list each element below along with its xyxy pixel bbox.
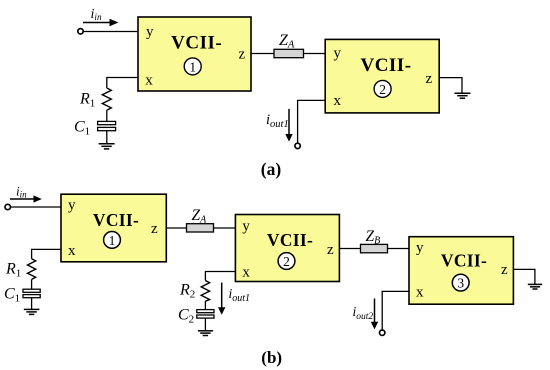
wire: x pin of U1b to R1 (b)	[32, 249, 61, 258]
svg-text:C1: C1	[4, 286, 20, 305]
svg-text:x: x	[334, 93, 342, 109]
node: output terminal i_out1 (a)	[295, 143, 300, 148]
capacitor C1 (a)	[98, 121, 116, 130]
wire: R2 to C2 (b)	[204, 301, 206, 310]
svg-text:iout2: iout2	[353, 304, 374, 322]
wire: C1 to ground (a)	[106, 131, 108, 144]
current arrow i_in (a)	[83, 19, 119, 27]
circled number 1 (U1b)	[104, 232, 121, 249]
svg-text:z: z	[327, 242, 334, 258]
svg-text:x: x	[416, 285, 424, 301]
circled number 3 (U3)	[452, 274, 469, 291]
svg-text:z: z	[151, 221, 158, 237]
impedance ZA (b)	[187, 224, 214, 232]
svg-text:1: 1	[189, 59, 196, 74]
resistor R2 (b)	[201, 281, 209, 302]
svg-text:2: 2	[379, 82, 386, 97]
svg-text:y: y	[242, 219, 250, 235]
svg-text:iin: iin	[16, 183, 27, 199]
svg-text:iin: iin	[91, 7, 102, 22]
circled number 2 (U2b)	[278, 253, 295, 270]
current arrow i_out2 (b)	[371, 299, 378, 330]
wire: z pin of U1a to ZA (a)	[251, 53, 274, 55]
svg-text:R2: R2	[179, 282, 195, 301]
current arrow i_out1 (a)	[285, 109, 292, 142]
resistor R1 (b)	[28, 259, 36, 280]
ground symbol at z of U2a (a)	[454, 93, 470, 98]
resistor R1 (a)	[102, 88, 111, 110]
ground symbol at z of U3 (b)	[528, 284, 542, 289]
svg-text:3: 3	[457, 276, 464, 291]
wire: ZB to y pin of U3 (b)	[388, 248, 410, 250]
impedance ZA (a)	[274, 49, 304, 57]
wire: input to y pin of VCII-1 (a)	[83, 31, 138, 33]
svg-text:ZA: ZA	[279, 32, 295, 51]
svg-text:x: x	[242, 265, 250, 281]
wire: z pin of U1b to ZA (b)	[166, 227, 186, 229]
impedance ZB (b)	[361, 244, 388, 252]
node: input terminal (a)	[78, 29, 83, 34]
VCII block 1 (b)	[61, 194, 166, 262]
svg-text:C1: C1	[74, 119, 90, 138]
wire: z pin of U3 to ground (b)	[513, 269, 535, 284]
wire: z pin of U2a to ground (a)	[439, 78, 462, 94]
svg-text:VCII-: VCII-	[360, 55, 411, 76]
svg-text:z: z	[239, 46, 246, 62]
svg-text:y: y	[416, 240, 424, 256]
svg-text:(a): (a)	[261, 159, 282, 179]
wire: x pin of U1a to R1 (a)	[107, 78, 138, 89]
svg-text:iout1: iout1	[266, 112, 289, 130]
ground symbol below C1 (b)	[24, 309, 40, 314]
svg-text:R1: R1	[79, 90, 95, 109]
wire: R1 to C1 (b)	[31, 279, 33, 289]
svg-text:1: 1	[109, 233, 116, 248]
svg-text:2: 2	[283, 254, 290, 269]
svg-text:VCII-: VCII-	[267, 230, 313, 250]
wire: C1 to ground (b)	[31, 298, 33, 310]
current arrow i_out1 (b)	[218, 283, 225, 315]
VCII block 2 (a)	[325, 39, 439, 113]
circled number 2 (U2a)	[374, 80, 391, 97]
svg-text:z: z	[426, 71, 433, 87]
svg-text:ZA: ZA	[192, 207, 208, 226]
wire: input to y pin of U1b (b)	[10, 206, 61, 208]
svg-text:x: x	[145, 72, 153, 88]
wire: ZA to y pin of U2a (a)	[304, 53, 326, 55]
svg-text:C2: C2	[178, 307, 194, 326]
svg-text:ZB: ZB	[366, 228, 381, 247]
wire: ZA to y pin of U2b (b)	[214, 227, 236, 229]
svg-text:VCII-: VCII-	[171, 33, 222, 54]
svg-text:iout1: iout1	[229, 286, 251, 304]
capacitor C2 (b)	[197, 310, 214, 319]
wire: x pin of U2b to R2 (b)	[205, 272, 235, 281]
capacitor C1 (b)	[23, 289, 40, 298]
svg-text:VCII-: VCII-	[93, 210, 139, 230]
wire: x pin of U2a to output terminal (a)	[298, 100, 326, 143]
circled number 1 (U1a)	[184, 58, 201, 75]
VCII block 3 (b)	[409, 237, 513, 305]
wire: x pin of U3 to output terminal (b)	[382, 291, 409, 330]
wire: C2 to ground (b)	[204, 318, 206, 331]
VCII block 2 (b)	[235, 215, 339, 282]
svg-text:VCII-: VCII-	[441, 250, 487, 270]
ground symbol below C1 (a)	[99, 144, 115, 149]
svg-text:z: z	[501, 262, 508, 278]
svg-text:y: y	[68, 197, 76, 213]
svg-text:(b): (b)	[261, 348, 282, 367]
node: input terminal (b)	[5, 204, 10, 209]
svg-text:y: y	[146, 24, 154, 40]
svg-text:y: y	[334, 45, 342, 61]
VCII block 1 (a)	[138, 17, 251, 91]
svg-text:R1: R1	[5, 261, 21, 280]
wire: R1 to C1 (a)	[106, 110, 108, 121]
svg-text:x: x	[68, 243, 76, 259]
node: output terminal i_out2 (b)	[380, 330, 385, 335]
ground symbol below C2 (b)	[198, 331, 213, 336]
current arrow i_in (b)	[10, 195, 42, 202]
wire: z pin of U2b to ZB (b)	[339, 248, 360, 250]
